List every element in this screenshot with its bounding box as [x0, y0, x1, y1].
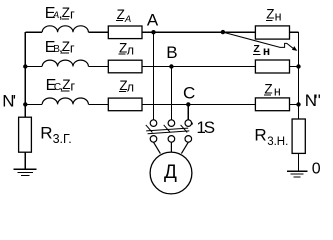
svg-text:C: C: [183, 83, 195, 102]
svg-text:3.Г.: 3.Г.: [53, 132, 72, 146]
svg-text:Z: Z: [264, 81, 272, 96]
svg-text:': ': [318, 91, 321, 110]
svg-text:R: R: [40, 124, 52, 143]
svg-text:л: л: [127, 44, 134, 58]
svg-text:Z: Z: [62, 39, 70, 54]
svg-text:г: г: [70, 40, 75, 55]
svg-text:B: B: [166, 43, 177, 62]
svg-text:Z: Z: [62, 77, 70, 92]
svg-text:н: н: [275, 10, 282, 24]
svg-text:Z: Z: [62, 5, 70, 20]
svg-text:г: г: [70, 78, 75, 93]
svg-text:Z: Z: [253, 43, 260, 55]
svg-text:S: S: [204, 118, 215, 137]
svg-text:Z: Z: [117, 7, 125, 22]
svg-text:н: н: [274, 85, 281, 99]
svg-text:A: A: [147, 11, 159, 30]
svg-text:н: н: [263, 44, 270, 58]
svg-text:3.Н.: 3.Н.: [267, 136, 288, 148]
svg-text:Д: Д: [164, 162, 177, 183]
svg-text:Z: Z: [266, 7, 274, 22]
svg-text:л: л: [127, 80, 134, 94]
svg-text:R: R: [254, 126, 266, 145]
svg-text:A: A: [124, 14, 131, 25]
svg-text:0: 0: [312, 160, 321, 177]
svg-text:г: г: [70, 7, 75, 22]
svg-text:': ': [13, 92, 16, 111]
